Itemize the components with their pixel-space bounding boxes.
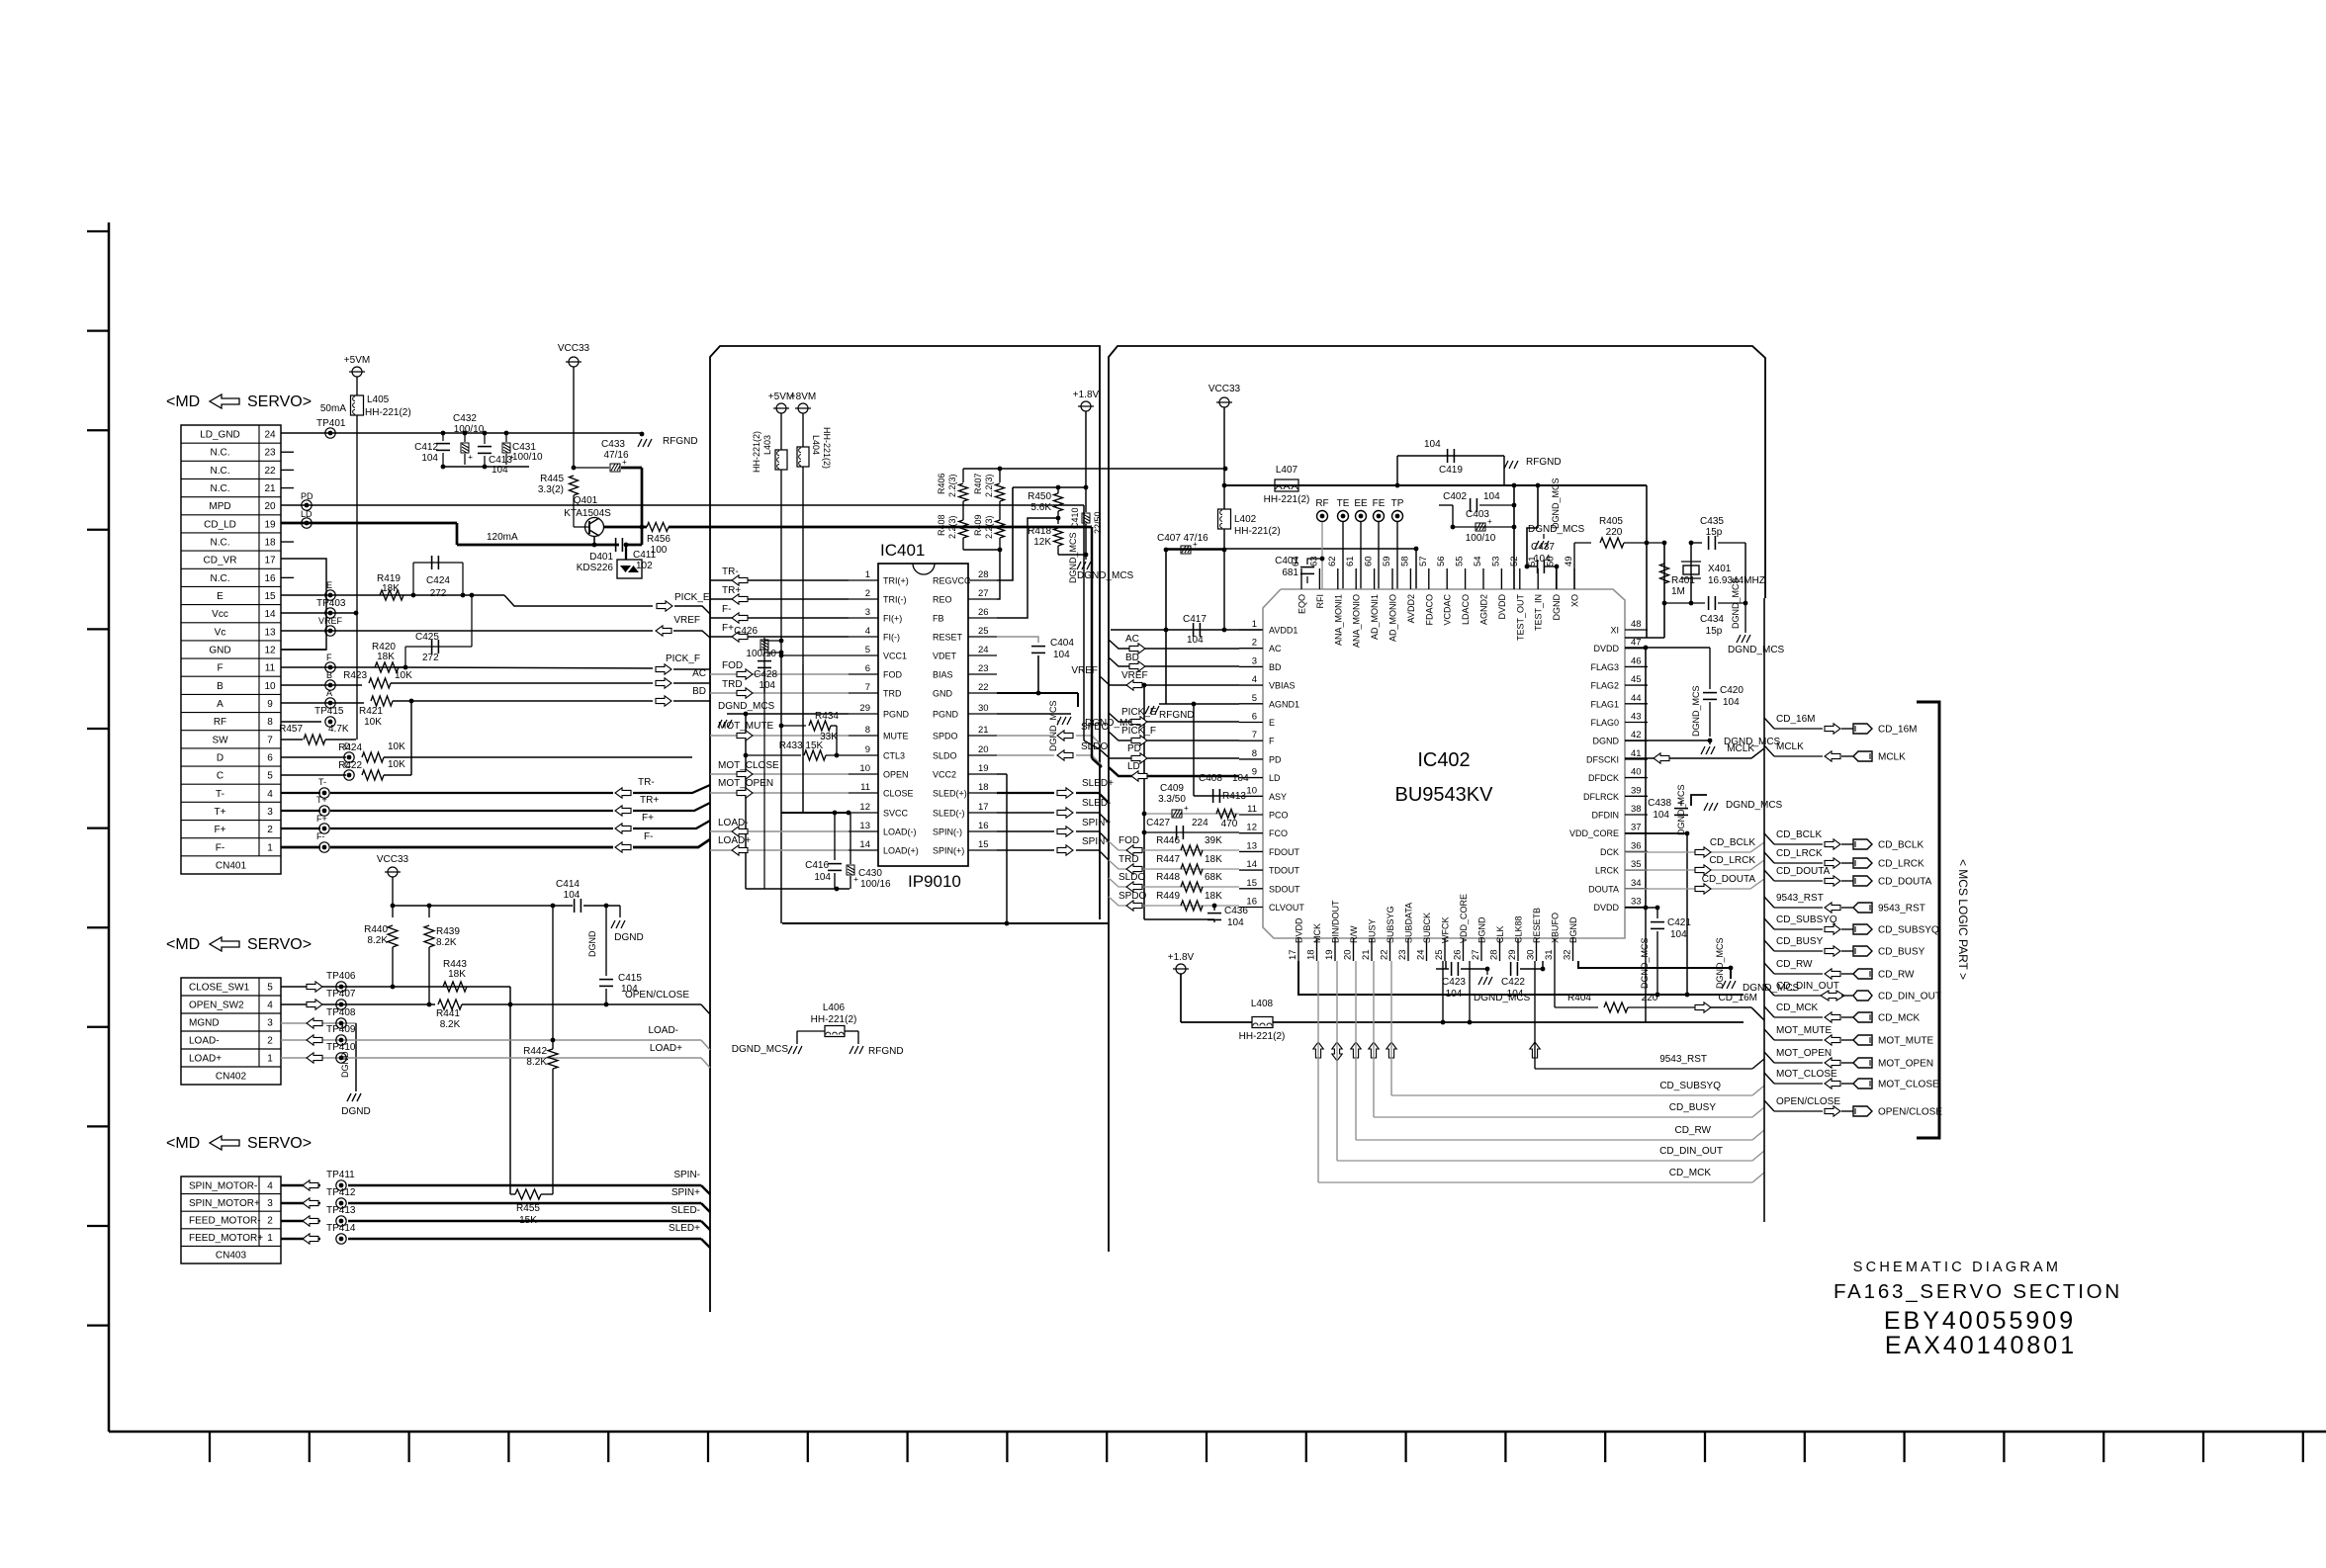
svg-text:104: 104 xyxy=(814,872,831,883)
capacitor C416 xyxy=(834,813,836,860)
svg-text:AGND2: AGND2 xyxy=(1479,594,1489,625)
svg-text:13: 13 xyxy=(1246,840,1257,851)
IC401 pin 26 FB xyxy=(968,617,997,619)
resistor R401 xyxy=(1660,564,1669,583)
wire Vcc row xyxy=(281,612,356,614)
svg-text:VDD_CORE: VDD_CORE xyxy=(1569,828,1619,838)
svg-text:L404: L404 xyxy=(811,435,821,455)
svg-text:CD_16M: CD_16M xyxy=(1776,714,1815,725)
wire C435 C434 right xyxy=(1744,543,1746,603)
svg-text:TP408: TP408 xyxy=(326,1007,356,1018)
svg-text:C434: C434 xyxy=(1700,614,1724,625)
IC402 pin 47 DVDD xyxy=(1625,648,1648,650)
svg-text:+: + xyxy=(1184,804,1189,813)
svg-text:XI: XI xyxy=(1610,626,1619,636)
net tag 9543_RST xyxy=(1764,897,1774,908)
svg-text:15: 15 xyxy=(978,839,989,850)
svg-text:DGND: DGND xyxy=(1568,916,1578,943)
svg-text:T+: T+ xyxy=(215,807,226,818)
IC402 pin 64 EQO xyxy=(1300,568,1302,589)
IC402 pin 8 PD xyxy=(1239,758,1263,760)
svg-text:11: 11 xyxy=(265,663,276,674)
capacitor C421 xyxy=(1656,908,1658,918)
svg-text:VBIAS: VBIAS xyxy=(1269,681,1296,691)
resistor R424 xyxy=(362,752,384,762)
svg-text:RFGND: RFGND xyxy=(663,436,698,447)
IC402 pin 29 CLK88 xyxy=(1517,938,1519,961)
svg-text:104: 104 xyxy=(421,453,438,464)
svg-text:CD_16M: CD_16M xyxy=(1878,725,1917,736)
svg-text:29: 29 xyxy=(859,703,870,714)
svg-text:2: 2 xyxy=(267,1216,273,1227)
resistor R443 xyxy=(443,982,467,992)
resistor R406 R408 xyxy=(962,469,964,482)
wire LD_GND pin24 xyxy=(281,432,643,434)
svg-text:TP409: TP409 xyxy=(326,1024,356,1035)
svg-text:E: E xyxy=(217,591,224,602)
ground DGND_MCS c423 xyxy=(1486,969,1488,975)
wire AC row xyxy=(1109,640,1239,649)
wire F row11 xyxy=(281,666,405,668)
svg-text:TP413: TP413 xyxy=(326,1205,356,1216)
capacitor C413 xyxy=(484,433,486,444)
svg-text:R433 15K: R433 15K xyxy=(779,740,824,751)
svg-text:DGND_MCS: DGND_MCS xyxy=(1474,993,1531,1003)
svg-text:22: 22 xyxy=(978,682,989,693)
svg-text:FOD: FOD xyxy=(883,670,902,680)
ground DGND_MCS pin30 xyxy=(997,713,1071,715)
svg-text:61: 61 xyxy=(1345,556,1356,566)
svg-text:CD_RW: CD_RW xyxy=(1776,959,1813,970)
wire MGND xyxy=(281,1022,356,1024)
wire PICK_F left xyxy=(396,667,653,668)
capacitor C436 xyxy=(1212,904,1217,909)
svg-text:C410: C410 xyxy=(1070,507,1080,529)
svg-text:272: 272 xyxy=(430,588,447,599)
svg-text:R434: R434 xyxy=(815,711,839,722)
svg-text:104: 104 xyxy=(1446,989,1463,1000)
IC402 pin 3 BD xyxy=(1239,665,1263,667)
svg-text:18: 18 xyxy=(264,538,276,549)
svg-text:OPEN_SW2: OPEN_SW2 xyxy=(189,1001,244,1011)
IC402 pin 61 ANA_MONIO xyxy=(1355,568,1357,589)
wire LOAD+ pin14 xyxy=(710,849,849,851)
svg-text:CD_MCK: CD_MCK xyxy=(1878,1013,1921,1024)
op-amp IC401 IP9010 xyxy=(878,564,968,866)
svg-text:1: 1 xyxy=(267,842,273,853)
svg-text:1: 1 xyxy=(267,1054,273,1065)
net tag MOT_CLOSE xyxy=(1764,1073,1774,1084)
svg-text:SPDO: SPDO xyxy=(1118,891,1147,902)
svg-text:R421: R421 xyxy=(359,706,383,717)
svg-text:ASY: ASY xyxy=(1269,792,1287,802)
svg-text:DGND_MCS: DGND_MCS xyxy=(1731,577,1741,629)
svg-text:34: 34 xyxy=(1631,878,1642,889)
svg-text:VCDAC: VCDAC xyxy=(1443,594,1453,626)
svg-text:104: 104 xyxy=(1670,929,1687,940)
svg-text:C435: C435 xyxy=(1700,516,1724,527)
svg-text:EBY40055909: EBY40055909 xyxy=(1884,1307,2076,1335)
wire AGND1 RFGND xyxy=(1159,703,1239,705)
IC402 pin 59 AD_MONIO xyxy=(1391,568,1393,589)
svg-text:64: 64 xyxy=(1291,556,1301,566)
wire N.C. stubs xyxy=(281,451,294,453)
net tag MCLK xyxy=(1764,745,1774,756)
svg-text:63: 63 xyxy=(1308,556,1319,566)
svg-text:CD_BUSY: CD_BUSY xyxy=(1878,947,1925,958)
wire LOAD- pin13 xyxy=(710,830,849,832)
svg-text:L406: L406 xyxy=(823,1002,846,1013)
inductor L408 xyxy=(1252,1017,1273,1028)
svg-text:RFGND: RFGND xyxy=(868,1046,904,1057)
svg-text:TP406: TP406 xyxy=(326,971,356,982)
svg-text:TR-: TR- xyxy=(638,777,655,788)
svg-text:C422: C422 xyxy=(1501,977,1525,988)
svg-text:A: A xyxy=(217,699,224,710)
power +1.8V ic401 xyxy=(1081,401,1091,411)
svg-text:PICK_E: PICK_E xyxy=(1121,707,1157,718)
wire DVDD33 xyxy=(1625,907,1657,909)
svg-text:SDOUT: SDOUT xyxy=(1269,884,1300,894)
svg-text:44: 44 xyxy=(1631,693,1642,704)
svg-text:F-: F- xyxy=(316,831,325,841)
IC402 pin 54 AGND2 xyxy=(1482,568,1484,589)
IC402 pin 25 WFCK xyxy=(1444,938,1446,961)
svg-text:104: 104 xyxy=(1424,439,1441,450)
svg-text:14: 14 xyxy=(859,839,870,850)
svg-text:C436: C436 xyxy=(1224,906,1248,916)
svg-text:Vcc: Vcc xyxy=(212,609,228,620)
svg-text:100/10: 100/10 xyxy=(1466,533,1496,544)
svg-text:R456: R456 xyxy=(647,534,671,545)
wire DVDD53 rail xyxy=(1513,485,1515,589)
svg-text:18: 18 xyxy=(978,782,989,793)
svg-text:23: 23 xyxy=(264,448,276,459)
wire SPIN_MOTOR+ SPIN+ xyxy=(281,1202,320,1204)
svg-text:CD_SUBSYQ: CD_SUBSYQ xyxy=(1878,925,1939,936)
svg-text:DFDIN: DFDIN xyxy=(1592,811,1620,821)
svg-text:104: 104 xyxy=(1232,773,1249,784)
net tag CD_DOUTA xyxy=(1764,870,1774,881)
wire TR+ pin2 xyxy=(710,598,849,600)
IC402 pin 53 DVDD xyxy=(1500,568,1502,589)
wire DVDD47 C420 xyxy=(1625,647,1710,649)
svg-text:TEST_IN: TEST_IN xyxy=(1534,594,1544,631)
svg-text:C417: C417 xyxy=(1183,614,1207,625)
svg-text:SPIN-: SPIN- xyxy=(673,1170,700,1180)
svg-text:2.2(3): 2.2(3) xyxy=(947,515,957,539)
svg-text:HH-221(2): HH-221(2) xyxy=(1264,494,1310,505)
wire LOAD+ row xyxy=(281,1057,701,1059)
svg-text:49: 49 xyxy=(1564,556,1574,566)
wire Vc VREF xyxy=(281,630,653,632)
capacitor C401 xyxy=(1306,562,1308,565)
svg-text:104: 104 xyxy=(621,984,638,995)
resistor R434 33K xyxy=(781,725,806,727)
svg-text:5.6K: 5.6K xyxy=(1030,502,1051,513)
wire CD_VR loop xyxy=(281,559,326,650)
IC402 pin 55 LDACO xyxy=(1465,568,1467,589)
wire SLED- pin17 xyxy=(997,812,1054,814)
svg-text:CTL3: CTL3 xyxy=(883,751,905,761)
power +5VM xyxy=(352,367,362,377)
svg-text:CD_BCLK: CD_BCLK xyxy=(1710,837,1755,848)
wire SLED+ pin18 xyxy=(997,792,1054,794)
svg-text:104: 104 xyxy=(1227,917,1244,928)
connector CN401 xyxy=(181,425,281,874)
svg-text:CN403: CN403 xyxy=(216,1251,247,1262)
svg-text:TP401: TP401 xyxy=(316,418,346,429)
IC402 pin 45 FLAG2 xyxy=(1625,684,1648,686)
svg-text:C420: C420 xyxy=(1720,685,1744,696)
svg-text:E: E xyxy=(326,580,332,590)
svg-text:55: 55 xyxy=(1455,556,1466,566)
svg-text:5: 5 xyxy=(865,645,870,655)
svg-text:VDET: VDET xyxy=(933,652,957,661)
svg-text:21: 21 xyxy=(978,725,989,736)
svg-text:F: F xyxy=(217,663,223,674)
svg-text:SLED-: SLED- xyxy=(671,1205,700,1216)
svg-text:CD_RW: CD_RW xyxy=(1675,1125,1712,1136)
svg-text:KDS226: KDS226 xyxy=(577,563,614,573)
svg-text:CD_BUSY: CD_BUSY xyxy=(1669,1102,1717,1113)
svg-text:AVDD1: AVDD1 xyxy=(1269,626,1297,636)
wire F row pick_f xyxy=(1109,732,1239,740)
svg-text:LOAD+: LOAD+ xyxy=(718,835,751,846)
svg-text:PGND: PGND xyxy=(933,710,959,720)
svg-text:CD_BUSY: CD_BUSY xyxy=(1776,936,1824,947)
svg-text:SLDO: SLDO xyxy=(933,751,957,761)
inductor L406 xyxy=(797,1030,825,1032)
svg-text:DVDD: DVDD xyxy=(1593,903,1619,913)
svg-text:VCC33: VCC33 xyxy=(558,343,590,354)
svg-text:27: 27 xyxy=(978,588,989,599)
wire B row10 AC xyxy=(281,684,362,686)
wire y491 L407 line xyxy=(1224,484,1647,486)
svg-text:X401: X401 xyxy=(1708,564,1732,574)
svg-text:CD_VR: CD_VR xyxy=(204,556,237,566)
wire VCC1 pin5 xyxy=(781,654,849,656)
IC402 pin 57 FDACO xyxy=(1428,568,1430,589)
svg-text:DGND: DGND xyxy=(1477,916,1487,943)
wire SPIN- pin16 xyxy=(997,830,1054,832)
svg-text:MUTE: MUTE xyxy=(883,732,909,741)
svg-text:C412: C412 xyxy=(414,442,438,453)
wire SLDO pin20 xyxy=(997,754,1054,756)
capacitor C419 xyxy=(1397,455,1504,457)
svg-text:C428: C428 xyxy=(754,669,777,680)
svg-text:18K: 18K xyxy=(377,652,395,662)
IC401 pin 9 CTL3 xyxy=(849,754,878,756)
svg-text:26: 26 xyxy=(1453,949,1464,960)
capacitor C412 xyxy=(442,433,444,441)
svg-text:CD_BCLK: CD_BCLK xyxy=(1878,840,1923,851)
svg-text:LOAD+: LOAD+ xyxy=(189,1054,222,1065)
svg-text:SERVO>: SERVO> xyxy=(247,936,312,953)
net tag CD_LRCK xyxy=(1764,852,1774,863)
IC401 pin 13 LOAD(-) xyxy=(849,830,878,832)
svg-text:C404: C404 xyxy=(1050,638,1074,649)
svg-text:F: F xyxy=(1269,737,1275,746)
svg-text:VCC1: VCC1 xyxy=(883,652,907,661)
svg-text:F+: F+ xyxy=(642,813,654,824)
svg-text:MOT_CLOSE: MOT_CLOSE xyxy=(718,760,779,771)
IC402 pin 9 LD xyxy=(1239,777,1263,779)
IC402 pin 19 DIN/DOUT xyxy=(1334,938,1336,961)
wire TDOUT R447 xyxy=(1109,860,1239,869)
IC402 pin 43 FLAG0 xyxy=(1625,722,1648,724)
svg-text:TRD: TRD xyxy=(883,689,902,699)
svg-text:R409: R409 xyxy=(973,514,983,536)
ground RFGND c419 xyxy=(1504,461,1508,469)
svg-text:15p: 15p xyxy=(1706,527,1723,538)
svg-text:8: 8 xyxy=(865,725,870,736)
svg-text:MGND: MGND xyxy=(189,1018,220,1029)
wire E row pick_e xyxy=(1109,713,1239,722)
svg-text:R441: R441 xyxy=(436,1008,460,1019)
IC402 pin 20 R/W xyxy=(1353,938,1355,961)
svg-text:2: 2 xyxy=(1252,638,1257,649)
svg-text:C409: C409 xyxy=(1160,783,1184,794)
svg-text:DGND_MCS: DGND_MCS xyxy=(1551,478,1561,529)
svg-text:12: 12 xyxy=(859,802,870,813)
svg-text:20: 20 xyxy=(1343,949,1354,960)
svg-text:C424: C424 xyxy=(426,575,450,586)
svg-text:RESET: RESET xyxy=(933,633,963,643)
svg-text:B: B xyxy=(217,681,224,692)
wire T+ row3 xyxy=(281,810,320,812)
svg-text:L405: L405 xyxy=(367,394,390,405)
svg-text:220: 220 xyxy=(1642,993,1658,1003)
svg-text:LOAD-: LOAD- xyxy=(648,1025,678,1036)
capacitor C434 xyxy=(1664,602,1705,604)
wire FDOUT R446 xyxy=(1109,841,1239,850)
resistor R433 15K xyxy=(746,754,801,756)
svg-text:26: 26 xyxy=(978,607,989,618)
svg-text:10: 10 xyxy=(1246,785,1257,796)
wire GND row12 xyxy=(281,649,326,651)
svg-text:PICK_F: PICK_F xyxy=(666,653,700,664)
svg-text:8.2K: 8.2K xyxy=(440,1019,461,1030)
microcontroller IC402 BU9543KV xyxy=(1263,589,1625,938)
svg-text:XO: XO xyxy=(1570,594,1580,607)
svg-text:A: A xyxy=(326,688,332,698)
svg-text:C421: C421 xyxy=(1667,917,1691,928)
svg-text:CLK88: CLK88 xyxy=(1514,915,1524,943)
svg-text:7: 7 xyxy=(865,682,870,693)
resistor R445 xyxy=(572,466,577,471)
svg-text:IP9010: IP9010 xyxy=(908,872,961,891)
wire E row xyxy=(281,594,504,596)
svg-text:R447: R447 xyxy=(1156,854,1180,865)
svg-text:T-: T- xyxy=(216,789,224,800)
svg-text:SW: SW xyxy=(212,735,228,745)
resistor R440 xyxy=(392,906,394,917)
svg-text:25: 25 xyxy=(1434,949,1445,960)
svg-text:SPIN_MOTOR-: SPIN_MOTOR- xyxy=(189,1180,257,1191)
svg-text:C403: C403 xyxy=(1466,509,1489,520)
resistor R407 R409 xyxy=(999,469,1001,482)
IC402 pin 41 DFSCKI xyxy=(1625,758,1648,760)
svg-text:15: 15 xyxy=(264,591,276,602)
svg-text:100/10: 100/10 xyxy=(746,649,776,659)
svg-text:B: B xyxy=(326,670,332,680)
svg-text:11: 11 xyxy=(1247,804,1257,815)
ground RFGND top xyxy=(638,439,642,447)
IC402 pin 36 DCK xyxy=(1625,850,1648,852)
svg-text:T-: T- xyxy=(318,777,326,787)
svg-text:FOD: FOD xyxy=(722,660,743,671)
svg-text:PGND: PGND xyxy=(883,710,910,720)
wire VREF row xyxy=(1100,676,1239,685)
wire cap bottoms xyxy=(443,466,529,468)
svg-text:18K: 18K xyxy=(382,583,400,594)
IC401 pin 1 TRI(+) xyxy=(849,579,878,581)
power +1.8V l408 xyxy=(1176,964,1186,974)
IC401 pin 19 VCC2 xyxy=(968,773,997,775)
inductor L403 xyxy=(776,403,786,413)
svg-text:OPEN/CLOSE: OPEN/CLOSE xyxy=(1878,1107,1942,1118)
svg-text:DGND_MCS: DGND_MCS xyxy=(1691,685,1701,737)
svg-text:100/10: 100/10 xyxy=(512,452,543,463)
diode D401 xyxy=(617,560,642,578)
svg-text:47: 47 xyxy=(1631,638,1642,649)
net tag CD_RW xyxy=(1764,963,1774,974)
svg-text:CLOSE_SW1: CLOSE_SW1 xyxy=(189,983,250,994)
svg-text:9: 9 xyxy=(1252,767,1257,778)
svg-text:CN401: CN401 xyxy=(216,860,247,871)
svg-text:SPIN(+): SPIN(+) xyxy=(933,846,964,856)
capacitor C426 xyxy=(763,638,765,692)
svg-text:MOT_CLOSE: MOT_CLOSE xyxy=(1776,1069,1837,1080)
IC402 pin 4 VBIAS xyxy=(1239,684,1263,686)
IC402 pin 2 AC xyxy=(1239,648,1263,650)
capacitor C414 xyxy=(574,899,576,913)
svg-text:+8VM: +8VM xyxy=(790,392,816,402)
svg-text:42: 42 xyxy=(1631,730,1642,740)
svg-text:8: 8 xyxy=(267,717,273,728)
svg-text:VREF: VREF xyxy=(673,615,700,626)
svg-text:SERVO>: SERVO> xyxy=(247,1135,312,1152)
IC402 pin 50 DGND xyxy=(1556,568,1558,589)
wire PD row xyxy=(1100,749,1239,758)
capacitor C430 xyxy=(850,813,851,864)
svg-text:GND: GND xyxy=(209,646,230,656)
svg-text:13: 13 xyxy=(264,627,276,638)
IC402 pin 28 CLK xyxy=(1499,938,1501,961)
svg-text:DVDD: DVDD xyxy=(1593,644,1619,653)
svg-text:9543_RST: 9543_RST xyxy=(1659,1054,1707,1065)
svg-text:SLED-: SLED- xyxy=(1082,798,1111,809)
svg-text:WFCK: WFCK xyxy=(1441,917,1451,944)
svg-text:MOT_MUTE: MOT_MUTE xyxy=(1776,1025,1832,1036)
IC401 pin 18 SLED(+) xyxy=(968,792,997,794)
net tag MOT_OPEN xyxy=(1764,1052,1774,1063)
svg-text:6: 6 xyxy=(267,752,273,763)
svg-text:DGND_MCS: DGND_MCS xyxy=(718,701,775,712)
svg-text:38: 38 xyxy=(1631,804,1642,815)
svg-text:22: 22 xyxy=(1380,949,1390,960)
svg-text:CD_BCLK: CD_BCLK xyxy=(1776,829,1822,840)
wire RESET C404 xyxy=(997,637,1038,643)
svg-text:PD: PD xyxy=(1127,743,1141,754)
svg-text:224: 224 xyxy=(1192,818,1208,828)
wire SPIN+ pin15 xyxy=(997,849,1054,851)
svg-text:LDACO: LDACO xyxy=(1461,594,1471,625)
svg-text:9543_RST: 9543_RST xyxy=(1776,893,1824,904)
svg-text:CN402: CN402 xyxy=(216,1072,247,1083)
svg-text:FE: FE xyxy=(1373,498,1386,509)
